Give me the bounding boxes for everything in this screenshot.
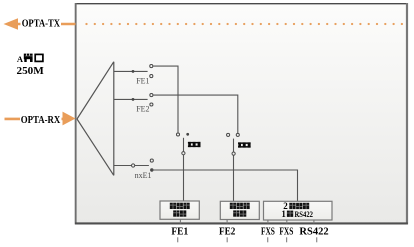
svg-text:FE2: FE2 (136, 104, 149, 113)
svg-text:FE1: FE1 (171, 227, 188, 238)
svg-text:RS422: RS422 (299, 227, 328, 238)
svg-text:FE1: FE1 (136, 77, 149, 86)
svg-text:FXS: FXS (261, 227, 275, 238)
svg-text:250M: 250M (17, 66, 45, 77)
svg-text:FXS: FXS (279, 227, 293, 238)
svg-text:OPTA-RX: OPTA-RX (21, 114, 61, 126)
svg-text:RS422: RS422 (295, 210, 314, 219)
svg-text:A: A (17, 54, 24, 64)
svg-text:nxE1: nxE1 (135, 171, 152, 180)
svg-text:1: 1 (281, 209, 286, 219)
svg-text:FE2: FE2 (219, 227, 235, 238)
svg-text:OPTA-TX: OPTA-TX (22, 19, 61, 30)
